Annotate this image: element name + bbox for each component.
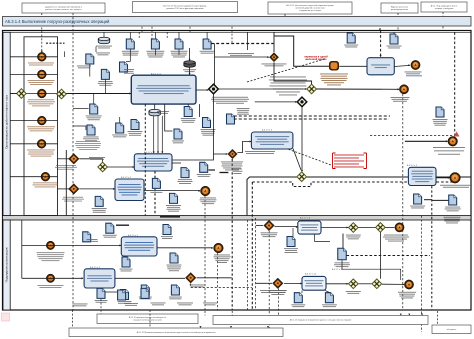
svg-text:А 6.1.1 в 1: А 6.1.1 в 1 [128, 234, 139, 237]
svg-text:А 6.1.7 в 8: А 6.1.7 в 8 [300, 217, 311, 220]
svg-text:отправл. и выгрузки: отправл. и выгрузки [435, 8, 454, 10]
svg-text:А 6.1.12 Проверка размещения и: А 6.1.12 Проверка размещения и крепления… [137, 331, 216, 334]
svg-text:А 6.1.1.6 погрузка и отправлен: А 6.1.1.6 погрузка и отправление грузов … [290, 319, 351, 322]
svg-text:А6.3.1.4 Выполнение погрузо-ра: А6.3.1.4 Выполнение погрузо-разгрузочных… [5, 19, 110, 24]
svg-text:А 6.1.7 в 4: А 6.1.7 в 4 [262, 129, 273, 132]
svg-text:регистрации актов: регистрации актов [391, 9, 408, 11]
svg-text:обслужив-е: обслужив-е [447, 329, 457, 331]
svg-text:А 6.1.7 в 10: А 6.1.7 в 10 [305, 272, 317, 275]
svg-text:А 6.1.7 в 1: А 6.1.7 в 1 [121, 176, 132, 179]
svg-text:Организация по добыче нефти и: Организация по добыче нефти и газа [4, 95, 8, 149]
svg-text:Подрядная организация: Подрядная организация [4, 247, 8, 282]
svg-text:А 6.1.7 в 3: А 6.1.7 в 3 [90, 266, 101, 269]
svg-text:А 6.1.1 в 1: А 6.1.1 в 1 [151, 72, 162, 75]
svg-text:А 6.1.7 в 5: А 6.1.7 в 5 [407, 164, 418, 167]
svg-text:станции и железнодорожных путя: станции и железнодорожных путях [133, 320, 162, 322]
svg-text:следования до станции: следования до станции [299, 10, 321, 12]
svg-text:рования ТЭО им и функции перев: рования ТЭО им и функции перевозок [166, 7, 203, 10]
svg-text:работе станции техноло- гич. п: работе станции техноло- гич. процесс [45, 9, 82, 11]
svg-text:железной дороге: железной дороге [304, 58, 327, 61]
